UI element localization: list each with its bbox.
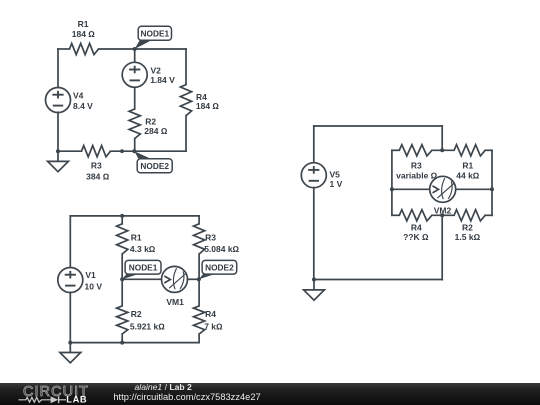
svg-text:R3: R3 [91,161,102,171]
voltage source V4 [46,88,71,113]
wire top rail left C [392,149,399,151]
junction dot bottom B [120,341,124,345]
label R4 B [205,309,216,319]
svg-text:R4: R4 [205,309,216,319]
svg-text:184 Ω: 184 Ω [72,29,96,39]
logo squiggle arrow [19,396,67,403]
svg-text:4.3 kΩ: 4.3 kΩ [130,244,156,254]
wire R4 bottom lead B [198,334,200,343]
wire bridge right rail [491,150,493,215]
wire R3 top lead B [198,216,200,224]
junction dot ground B [68,341,72,345]
value R3 variable ohm [396,171,437,181]
wire right upper A [185,49,187,85]
svg-text:R1: R1 [78,19,89,29]
value V4 8.4 V [73,101,93,111]
svg-text:R1: R1 [131,232,142,242]
wire top rail right C [485,149,492,151]
svg-text:5.084 kΩ: 5.084 kΩ [204,244,239,254]
label R3 C [411,160,422,170]
svg-text:284 Ω: 284 Ω [144,126,168,136]
junction dot top rail C [440,148,444,152]
voltage source V1 [58,268,83,293]
value R1 184 ohm [72,29,96,39]
junction dot ground A [56,149,60,153]
footer title alaine1 / Lab 2 [135,382,193,392]
voltage source V2 [122,62,147,87]
label R2 C [462,222,473,232]
svg-text:R4: R4 [411,222,422,232]
value R2 284 ohm [144,126,168,136]
resistor R4 (circuit C) [399,210,432,221]
resistor R3 (circuit C) [399,145,432,156]
wire node2-R4 lead B [198,279,200,306]
svg-text:V2: V2 [151,65,162,75]
wire node1-VM1 [122,278,161,280]
value V2 1.84 V [150,75,175,85]
wire R1-node1 lead B [121,254,123,279]
node callout NODE1 (circuit B) [122,260,161,279]
wire bottom-right A [111,150,187,152]
value V5 1 V [330,179,343,189]
wire VM1-node2 [188,278,200,280]
svg-text:R2: R2 [131,309,142,319]
wire bottom feed C [441,215,443,279]
footer bar [0,383,540,405]
svg-text:10 V: 10 V [85,281,103,291]
wire R3-node2 lead B [198,254,200,279]
svg-text:LAB: LAB [66,395,87,405]
wire top-left A [58,48,70,50]
label VM1 [166,297,184,307]
resistor R3 (circuit A) [82,146,111,157]
value R4 184 ohm [196,101,220,111]
resistor R1 (circuit B) [117,224,128,254]
svg-text:NODE1: NODE1 [141,28,170,38]
wire left lower C [313,188,315,280]
label V5 [330,169,341,179]
value R3 384 ohm [86,171,110,181]
svg-text:R3: R3 [411,160,422,170]
node dot NODE2 attach [132,149,136,153]
wire top rail mid C [432,149,454,151]
label R2 B [131,309,142,319]
ground B [60,342,81,363]
wire left lower A [57,112,59,151]
value R4 ??K ohm [403,232,429,242]
value R2 1.5 kohm [455,232,481,242]
ground C [304,280,325,301]
value R2 5.921 kohm [130,322,165,332]
svg-text:384 Ω: 384 Ω [86,171,110,181]
label R4 [196,92,207,102]
label R3 B [205,232,216,242]
label R1 C [462,160,473,170]
wire left upper C [313,126,315,163]
label V2 [151,65,162,75]
svg-text:V1: V1 [85,270,96,280]
voltmeter VM1 [162,266,188,292]
svg-text:??K Ω: ??K Ω [403,232,429,242]
wire mid rail left C [392,188,430,190]
wire R2 bottom lead B [121,334,123,343]
wire R1 top lead B [121,216,123,224]
wire bottom rail right C [485,214,492,216]
wire R2 bottom lead [134,139,136,152]
value R4 7 kohm [204,322,223,332]
svg-text:V4: V4 [73,91,84,101]
resistor R1 (circuit A) [70,43,99,54]
svg-text:R3: R3 [205,232,216,242]
svg-text:7 kΩ: 7 kΩ [204,322,223,332]
svg-text:V5: V5 [330,169,341,179]
wire bottom B [70,342,199,344]
wire bottom rail left C [392,214,399,216]
value R1 4.3 kohm [130,244,156,254]
svg-text:1.84 V: 1.84 V [150,75,175,85]
node dot NODE2 B [197,277,201,281]
svg-text:http://circuitlab.com/czx7583z: http://circuitlab.com/czx7583zz4e27 [113,392,260,402]
voltage source V5 [301,163,326,188]
label V1 [85,270,96,280]
svg-text:1.5 kΩ: 1.5 kΩ [455,232,481,242]
svg-text:1 V: 1 V [330,179,343,189]
resistor R4 (circuit A) [180,85,191,116]
svg-text:R1: R1 [462,160,473,170]
wire top feed C [441,126,443,150]
value R1 44 kohm [456,171,480,181]
node callout NODE1 (circuit A) [135,26,172,49]
wire top C [314,125,442,127]
junction dot left rail C [390,187,394,191]
wire left upper A [57,49,59,88]
svg-text:8.4 V: 8.4 V [73,101,93,111]
voltmeter VM2 [430,176,456,202]
label R1 [78,19,89,29]
wire node1-R2 lead B [121,279,123,306]
node callout NODE2 (circuit A) [134,151,172,173]
junction dot bottom A [120,149,124,153]
label R1 B [131,232,142,242]
wire left upper B [69,216,71,268]
wire bottom C [314,279,442,281]
wire top B [70,215,199,217]
logo LAB text [66,395,87,405]
svg-text:184 Ω: 184 Ω [196,101,220,111]
svg-text:R2: R2 [462,222,473,232]
wire top-right A [99,48,187,50]
wire right lower A [185,116,187,152]
wire bottom rail mid C [432,214,454,216]
junction dot top B [120,214,124,218]
wire V2 top lead [134,49,136,62]
svg-text:VM1: VM1 [166,297,184,307]
wire mid rail right C [456,188,492,190]
resistor R4 (circuit B) [194,306,205,334]
label V4 [73,91,84,101]
label VM2 [434,205,452,215]
svg-text:variable Ω: variable Ω [396,171,437,181]
resistor R3 (circuit B) [194,224,205,254]
wire bridge left rail [391,150,393,215]
svg-text:NODE2: NODE2 [140,161,169,171]
label R3 [91,161,102,171]
node callout NODE2 (circuit B) [199,260,237,279]
junction dot right rail C [490,187,494,191]
resistor R2 (circuit B) [117,306,128,334]
svg-text:R2: R2 [145,116,156,126]
svg-text:alaine1 / Lab 2: alaine1 / Lab 2 [135,382,193,392]
node dot NODE1 B [120,277,124,281]
resistor R2 (circuit A) [129,109,140,139]
logo CIRCUIT text [23,384,89,400]
value V1 10 V [85,281,103,291]
resistor R2 (circuit C) [454,210,485,221]
wire V2-R2 lead [134,87,136,109]
svg-text:NODE2: NODE2 [205,262,234,272]
junction dot ground C [312,278,316,282]
node dot NODE1 attach [133,47,137,51]
wire bottom-left A [58,150,82,152]
junction dot bottom rail C [440,213,444,217]
ground A [48,151,69,172]
svg-text:NODE1: NODE1 [129,262,158,272]
value R3 5.084 kohm [204,244,239,254]
footer url [113,392,260,402]
label R2 [145,116,156,126]
svg-text:5.921 kΩ: 5.921 kΩ [130,322,165,332]
svg-text:44 kΩ: 44 kΩ [456,171,480,181]
wire left lower B [69,292,71,342]
resistor R1 (circuit C) [454,145,485,156]
label R4 C [411,222,422,232]
